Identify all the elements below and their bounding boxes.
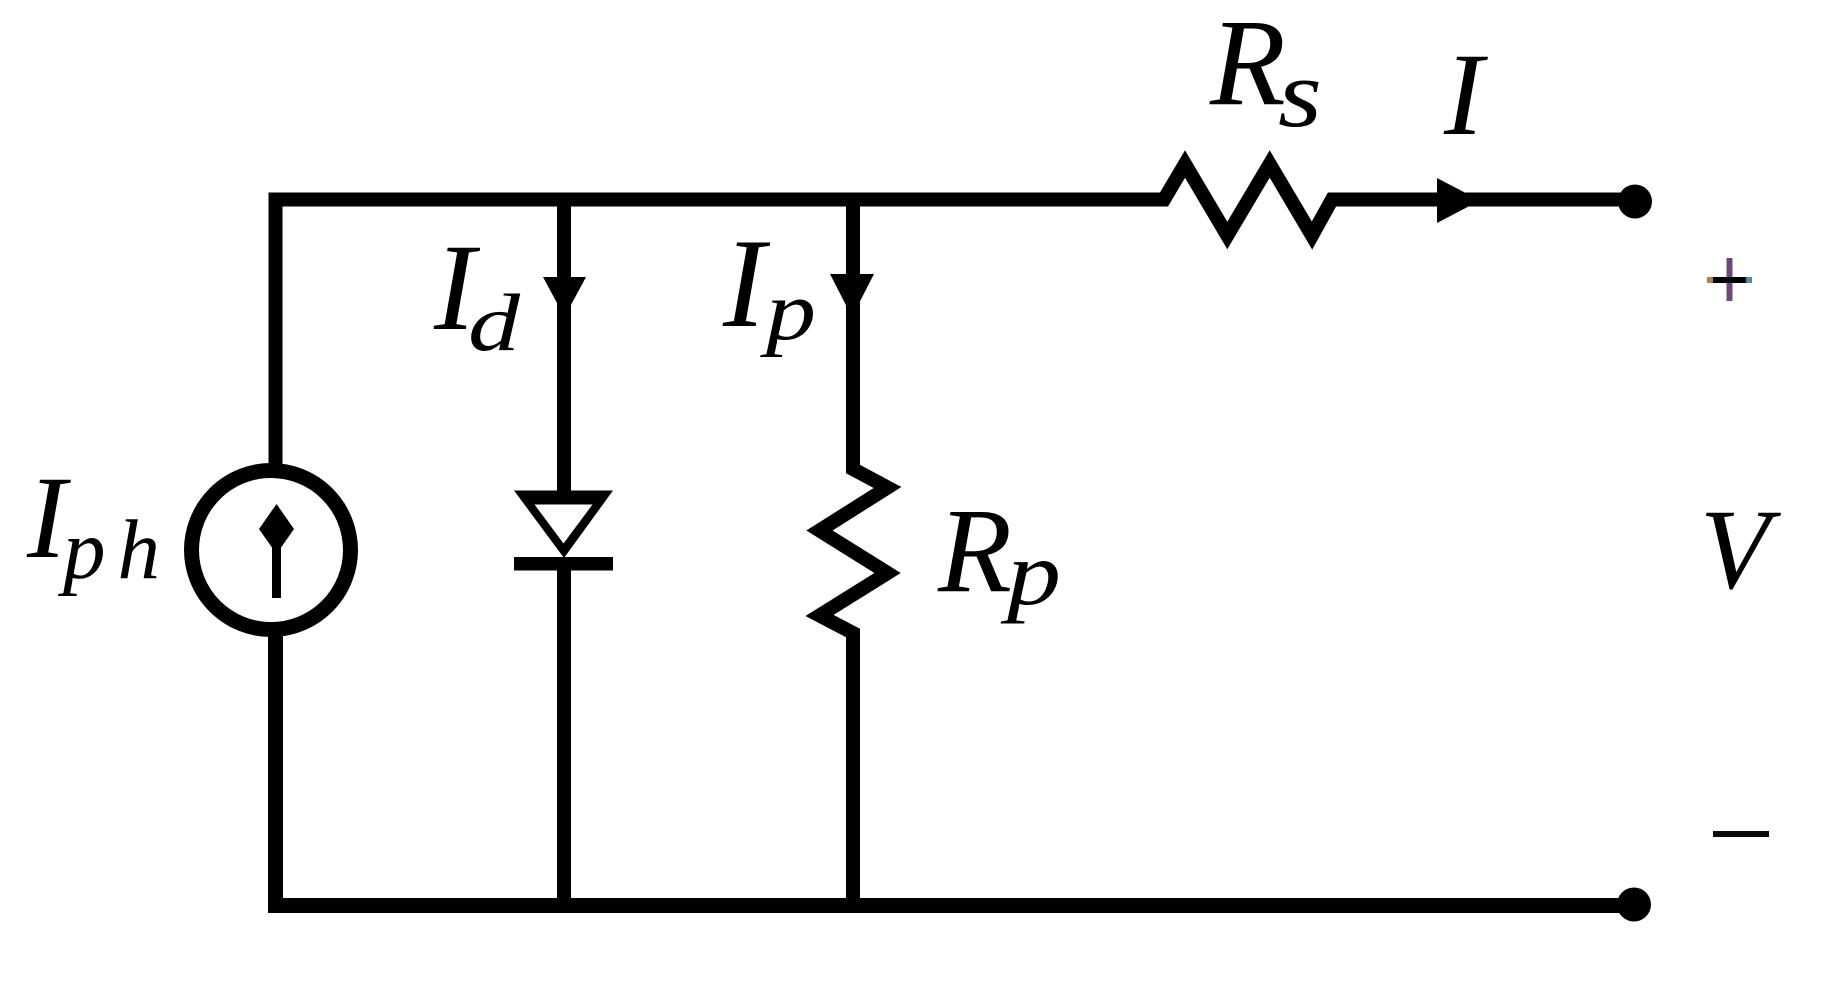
wire diode branch lower — [557, 563, 571, 905]
shunt current arrow Ip — [830, 274, 874, 317]
current source arrow head — [259, 504, 294, 554]
svg-text:V: V — [1700, 486, 1781, 613]
label - terminal — [1713, 831, 1769, 837]
wire shunt branch + resistor Rp — [820, 193, 888, 906]
svg-text:s: s — [1278, 40, 1322, 147]
svg-text:p: p — [1000, 523, 1061, 624]
current source arrow shaft — [272, 545, 281, 598]
label + terminal — [1707, 258, 1752, 301]
terminal node top — [1618, 185, 1652, 219]
svg-text:d: d — [468, 277, 521, 368]
svg-text:R: R — [1209, 0, 1286, 131]
diode D1 cathode bar — [514, 557, 613, 571]
diode D1 triangle — [514, 491, 613, 559]
svg-text:ph: ph — [58, 503, 172, 597]
current source U1 circle — [192, 471, 351, 630]
terminal node bottom — [1617, 888, 1651, 922]
svg-text:I: I — [1443, 29, 1488, 160]
wire top bus + resistor Rs + output wire — [276, 164, 1636, 470]
wire diode branch upper — [557, 193, 571, 498]
wire left branch lower + bottom bus — [276, 630, 1635, 906]
svg-text:p: p — [760, 265, 816, 358]
svg-text:I: I — [722, 214, 771, 354]
current arrow I — [1437, 178, 1480, 223]
diode current arrow Id — [543, 277, 586, 317]
svg-text:R: R — [937, 484, 1012, 618]
